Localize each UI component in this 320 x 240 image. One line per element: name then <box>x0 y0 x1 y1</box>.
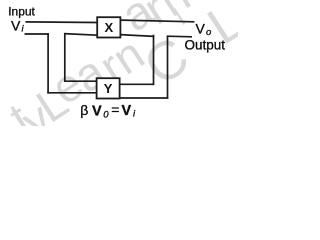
svg-text:=: = <box>111 102 119 118</box>
feedback block Y <box>97 78 120 98</box>
wire outer-left vertical <box>47 33 49 93</box>
svg-text:i: i <box>22 24 25 35</box>
wire bottom-left horizontal <box>47 92 97 94</box>
svg-text:V: V <box>92 104 102 120</box>
wire outer-right vertical <box>167 36 169 99</box>
svg-text:V: V <box>196 21 206 37</box>
wire output top <box>120 20 195 22</box>
wire input top <box>26 21 98 24</box>
svg-text:Output: Output <box>185 37 226 52</box>
svg-text:β: β <box>80 102 88 118</box>
amplifier block X <box>97 17 120 37</box>
wire inner-left bottom horizontal <box>64 80 97 82</box>
svg-text:Input: Input <box>8 5 35 19</box>
wire inner-right top horizontal <box>120 35 154 37</box>
wire input bottom stub <box>25 33 50 35</box>
wire inner-right bottom horizontal <box>120 83 155 85</box>
svg-text:X: X <box>104 20 113 35</box>
svg-text:Y: Y <box>104 81 113 96</box>
svg-text:V: V <box>11 18 21 34</box>
wire inner-left vertical <box>64 33 66 82</box>
wire inner-left top horizontal <box>64 34 98 36</box>
svg-text:i: i <box>133 109 136 120</box>
watermark <box>0 0 254 147</box>
wire outer-right bottom horizontal <box>117 97 168 99</box>
svg-text:0: 0 <box>103 110 109 121</box>
wire output bottom stub <box>167 35 192 38</box>
svg-text:V: V <box>122 103 132 119</box>
wire inner-right vertical <box>153 35 155 85</box>
